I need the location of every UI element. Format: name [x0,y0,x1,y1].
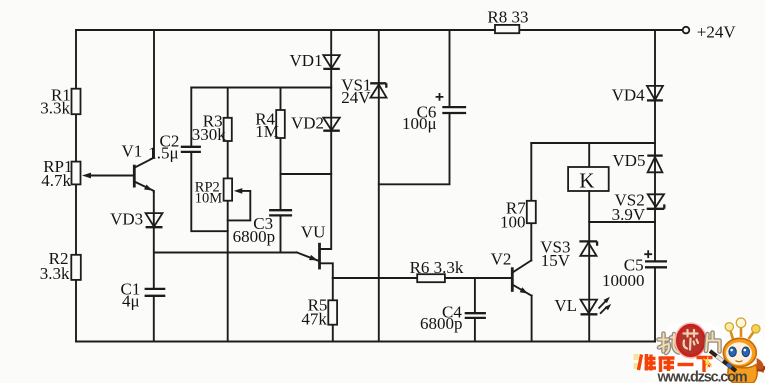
svg-text:+24V: +24V [697,22,737,41]
svg-text:10M: 10M [195,191,223,207]
watermark yellow shadow marks [634,354,639,369]
wire VU base1 node to V2 base [333,277,512,279]
wire V2 collector to R7 [530,143,532,261]
svg-text:R6 3.3k: R6 3.3k [410,258,464,277]
svg-text:47k: 47k [301,310,327,329]
wire V1 base to RP1 wiper with arrow [82,173,134,179]
svg-text:1M: 1M [255,122,279,141]
wire RP2 wiper loop with arrow [228,188,251,220]
zener VS2 [612,191,665,224]
transistor V2 [491,249,532,295]
wire C6 top branch [449,30,451,107]
svg-text:VD5: VD5 [612,151,645,170]
svg-text:10000: 10000 [602,271,645,290]
svg-text:VU: VU [301,222,326,241]
svg-text:330k: 330k [192,125,227,144]
wire V1 collector to top rail [153,30,155,158]
svg-text:100μ: 100μ [402,114,437,133]
watermark magnifier ring with xin character [675,323,706,358]
resistor R4 [255,109,285,141]
wire C1 to bottom rail [153,296,155,342]
capacitor C4 [420,303,486,334]
wire R4 C3 branch [280,88,282,253]
wire R3 RP2 branch [227,88,229,342]
wire C2 top branch [190,88,192,147]
svg-text:V2: V2 [491,249,512,268]
resistor R6 [410,258,464,282]
svg-text:VD2: VD2 [291,114,324,133]
wire R5 branch [332,278,334,342]
svg-text:VL: VL [554,296,577,315]
wire top supply rail left of R8 [76,29,495,31]
diode VD2 [291,114,340,133]
wire C4 branch [474,278,476,342]
resistor R2 [40,249,81,283]
svg-text:VD1: VD1 [290,51,323,70]
wire C6 bottom to VS1 branch [379,113,450,184]
svg-text:4μ: 4μ [122,292,140,311]
resistor R1 [40,86,80,118]
svg-text:3.3k: 3.3k [40,264,70,283]
svg-text:VD3: VD3 [110,210,143,229]
svg-text:R8 33: R8 33 [487,7,528,26]
wire VS1 branch [378,30,380,342]
wire top supply rail right of R8 [519,29,682,31]
svg-text:24V: 24V [341,88,371,107]
capacitor C3 [233,210,293,246]
capacitor C6 [402,93,466,133]
capacitor C2 [148,131,201,162]
wire R4 bottom to VD2 bottom [281,173,332,175]
watermark character pian outlined [706,333,720,352]
capacitor C1 [121,280,166,311]
resistor R3 [192,112,232,145]
wire right branch upper [654,30,656,261]
svg-text:VD4: VD4 [612,86,646,105]
watermark mascot [704,318,765,383]
wire upper node rail y87 [191,87,331,89]
potentiometer RP2 [195,178,232,206]
svg-text:www.dzsc.com: www.dzsc.com [657,369,747,383]
diode VD3 [110,210,162,229]
svg-text:K: K [579,168,594,192]
relay K [568,167,609,192]
wire right branch lower [654,267,656,341]
wire C2 bottom to RP2 bottom node [191,152,227,231]
wire R7 top node to VD4 branch [531,142,655,144]
svg-text:100: 100 [500,212,526,231]
transistor V1 [122,142,155,192]
wire bottom rail [76,341,655,343]
wire V1 emitter down through VD3 to C1 [153,191,155,289]
terminal +24V [683,22,737,41]
potentiometer RP1 [41,157,80,190]
resistor R5 [301,296,337,329]
svg-text:V1: V1 [122,142,143,161]
wire VD1 VD2 branch [321,30,332,249]
capacitor C5 [602,250,667,289]
svg-text:3.3k: 3.3k [40,99,70,118]
svg-text:4.7k: 4.7k [41,171,71,190]
zener VS1 [341,76,386,108]
transistor VU unijunction [297,222,333,278]
diode VD1 [290,51,340,70]
wire V2 emitter to bottom rail [531,296,533,342]
svg-text:6800p: 6800p [233,227,276,246]
svg-text:15V: 15V [541,251,571,270]
svg-text:6800p: 6800p [420,314,463,333]
svg-text:1.5μ: 1.5μ [148,144,178,163]
LED VL [554,296,611,315]
watermark backdrop haze [636,320,765,383]
wire K branch upper [588,143,590,167]
wire VS2 bottom node to K branch [589,221,655,223]
wire emitter node horizontal to VU [154,252,297,254]
wire K bottom through VS3 VL to bottom rail [588,191,590,342]
resistor R8 [487,7,528,33]
diode VD5 [612,151,662,173]
wire left rail [75,30,77,342]
resistor R7 [500,198,536,231]
svg-text:3.9V: 3.9V [612,205,646,224]
watermark weiku yixia red text [639,354,713,372]
zener VS3 [540,238,597,270]
watermark character zhao outlined [659,334,679,354]
diode VD4 [612,86,663,105]
